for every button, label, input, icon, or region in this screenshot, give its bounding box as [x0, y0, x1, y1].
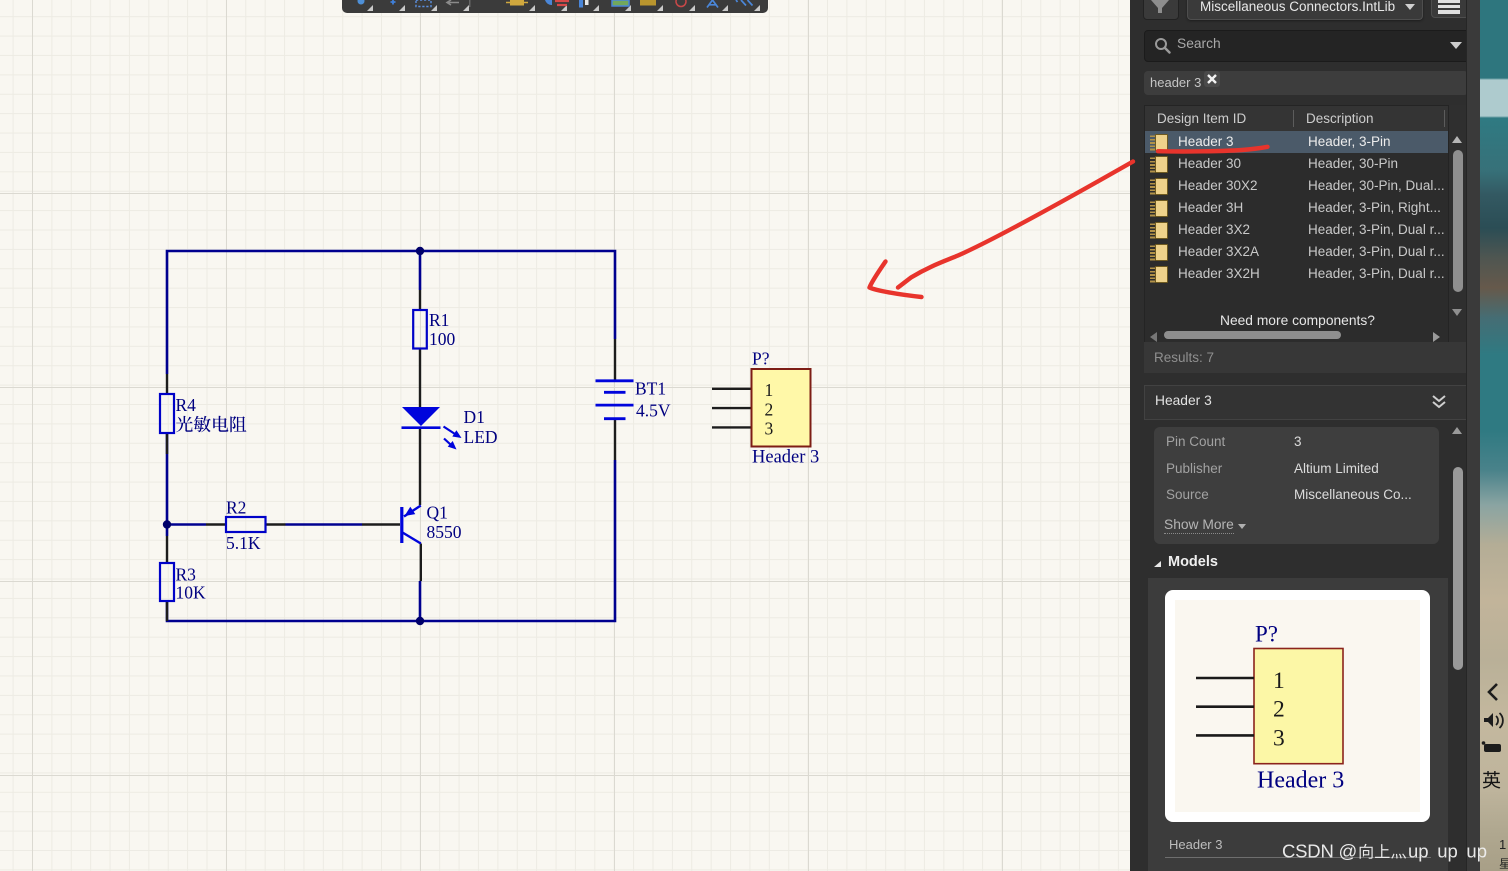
svg-text:up up up: up up up [1408, 841, 1487, 862]
svg-text:CSDN @: CSDN @ [1282, 841, 1357, 862]
